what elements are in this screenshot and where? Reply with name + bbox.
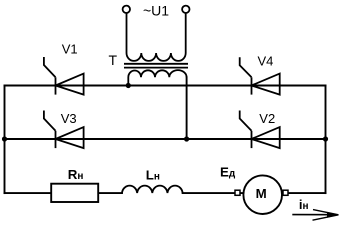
svg-text:V3: V3 bbox=[61, 111, 77, 126]
transformer T secondary winding bbox=[128, 70, 186, 86]
wire primary left stem bbox=[126, 13, 128, 53]
wire right rail bbox=[325, 86, 327, 194]
thyristor V4 bbox=[240, 57, 280, 94]
current arrow iн bbox=[292, 210, 339, 221]
transformer T primary winding bbox=[127, 53, 186, 61]
wire row2 (lower bridge rail) bbox=[5, 138, 326, 140]
wire row1 (top bridge rail) bbox=[5, 85, 326, 87]
terminal circle left bbox=[123, 6, 130, 13]
svg-text:~U1: ~U1 bbox=[143, 3, 169, 19]
junction dot secondary-row1 bbox=[126, 83, 131, 88]
motor M terminal square left bbox=[235, 190, 240, 195]
svg-text:V2: V2 bbox=[259, 111, 275, 126]
wire primary right stem bbox=[185, 13, 187, 53]
junction dot left rail row2 bbox=[2, 136, 7, 141]
junction dot right rail row2 bbox=[323, 136, 328, 141]
svg-text:V4: V4 bbox=[258, 53, 274, 68]
thyristor V2 bbox=[240, 111, 280, 149]
motor M body bbox=[243, 175, 282, 214]
wire row3 left segment bbox=[5, 192, 123, 194]
svg-text:M: M bbox=[256, 186, 267, 201]
svg-text:T: T bbox=[109, 52, 118, 68]
wire secondary right lead down to row2 bbox=[186, 77, 188, 139]
transformer T core bbox=[124, 64, 188, 68]
thyristor V3 bbox=[44, 111, 84, 149]
resistor Rн bbox=[51, 184, 98, 202]
wire left rail bbox=[4, 86, 6, 194]
inductor Lн bbox=[122, 186, 183, 193]
motor M terminal square right bbox=[283, 190, 288, 195]
thyristor V1 bbox=[44, 57, 84, 95]
junction dot secondary-row2 bbox=[184, 136, 189, 141]
wire row3 right segment bbox=[183, 192, 326, 194]
terminal circle right bbox=[182, 6, 189, 13]
svg-text:V1: V1 bbox=[62, 42, 78, 57]
